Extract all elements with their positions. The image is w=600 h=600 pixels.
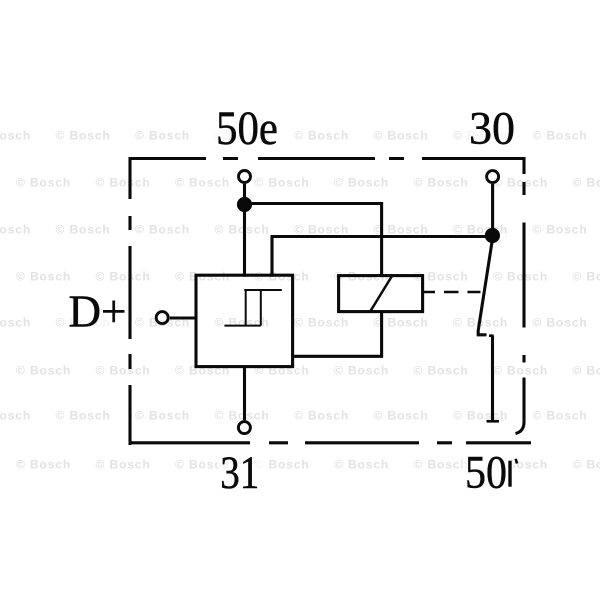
svg-text:© Bosch: © Bosch	[533, 129, 588, 143]
svg-text:© Bosch: © Bosch	[16, 176, 71, 190]
svg-text:© Bosch: © Bosch	[533, 409, 588, 423]
svg-text:© Bosch: © Bosch	[453, 409, 508, 423]
hysteresis symbol inside U1	[224, 290, 281, 326]
svg-text:© Bosch: © Bosch	[96, 458, 151, 472]
svg-text:© Bosch: © Bosch	[135, 129, 190, 143]
svg-text:© Bosch: © Bosch	[533, 223, 588, 237]
svg-text:© Bosch: © Bosch	[215, 223, 270, 237]
svg-text:© Bosch: © Bosch	[294, 223, 349, 237]
relay housing: top dashed border	[130, 157, 526, 160]
svg-text:© Bosch: © Bosch	[16, 270, 71, 284]
control unit U1 (Schmitt trigger box)	[196, 275, 293, 366]
svg-text:© Bosch: © Bosch	[96, 270, 151, 284]
svg-text:© Bosch: © Bosch	[334, 176, 389, 190]
svg-text:© Bosch: © Bosch	[414, 176, 469, 190]
mechanical link (dashed) coil to contact	[423, 291, 481, 294]
svg-text:© Bosch: © Bosch	[493, 270, 548, 284]
svg-text:© Bosch: © Bosch	[135, 223, 190, 237]
svg-text:© Bosch: © Bosch	[0, 316, 31, 330]
relay housing: right dashed border	[516, 157, 525, 434]
svg-text:© Bosch: © Bosch	[493, 176, 548, 190]
svg-text:© Bosch: © Bosch	[96, 176, 151, 190]
terminal 31 pin circle	[238, 422, 250, 434]
svg-text:© Bosch: © Bosch	[56, 409, 111, 423]
svg-text:© Bosch: © Bosch	[414, 458, 469, 472]
wire: horizontal run to 30 node	[271, 235, 493, 238]
svg-text:© Bosch: © Bosch	[493, 364, 548, 378]
terminal 50f label	[465, 448, 517, 499]
svg-text:© Bosch: © Bosch	[0, 223, 31, 237]
svg-text:© Bosch: © Bosch	[255, 176, 310, 190]
svg-text:© Bosch: © Bosch	[215, 409, 270, 423]
svg-text:© Bosch: © Bosch	[294, 409, 349, 423]
svg-text:50: 50	[465, 448, 507, 499]
wire: coil bottom down	[380, 312, 383, 357]
relay coil K1 box	[339, 276, 423, 312]
wire: down to coil top	[380, 202, 383, 277]
svg-text:© Bosch: © Bosch	[374, 409, 429, 423]
svg-text:© Bosch: © Bosch	[294, 316, 349, 330]
svg-text:© Bosch: © Bosch	[175, 176, 230, 190]
svg-text:© Bosch: © Bosch	[374, 129, 429, 143]
svg-text:30: 30	[469, 103, 515, 154]
svg-text:© Bosch: © Bosch	[334, 364, 389, 378]
wire: 30 pin down to switch node	[491, 184, 494, 236]
wire: trigger box bottom to 31 pin	[243, 367, 246, 421]
wire: 50e pin to junction dot	[243, 184, 246, 199]
svg-text:© Bosch: © Bosch	[573, 270, 600, 284]
svg-text:© Bosch: © Bosch	[533, 316, 588, 330]
switch contact blade	[478, 242, 492, 335]
svg-text:D+: D+	[69, 286, 127, 337]
svg-text:© Bosch: © Bosch	[573, 458, 600, 472]
junction dot at 30/switch node	[485, 228, 500, 243]
wire: coil bottom run to trigger box output	[293, 355, 384, 358]
svg-text:50e: 50e	[216, 102, 278, 155]
terminal D+ pin circle	[156, 312, 168, 324]
svg-text:© Bosch: © Bosch	[294, 129, 349, 143]
wire: 50e node down to trigger box top	[243, 205, 246, 277]
svg-text:© Bosch: © Bosch	[334, 458, 389, 472]
wire: 50e node right toward coil (horizontal)	[245, 202, 383, 205]
svg-text:© Bosch: © Bosch	[56, 129, 111, 143]
svg-text:© Bosch: © Bosch	[573, 364, 600, 378]
wire: D+ pin to trigger box	[170, 316, 197, 319]
junction dot at 50e node	[237, 197, 252, 212]
svg-text:© Bosch: © Bosch	[96, 364, 151, 378]
svg-text:31: 31	[220, 448, 259, 499]
svg-text:© Bosch: © Bosch	[414, 364, 469, 378]
svg-text:© Bosch: © Bosch	[573, 176, 600, 190]
svg-text:© Bosch: © Bosch	[16, 458, 71, 472]
wire: trigger box top to 30 node (vertical riser)	[270, 237, 273, 277]
svg-text:© Bosch: © Bosch	[0, 129, 31, 143]
relay housing: left dashed border	[128, 157, 131, 445]
svg-text:© Bosch: © Bosch	[0, 409, 31, 423]
coil diagonal stroke	[371, 276, 393, 311]
terminal 50e pin circle	[239, 171, 251, 183]
svg-text:© Bosch: © Bosch	[16, 364, 71, 378]
terminal 30 pin circle	[487, 171, 499, 183]
switch fixed contact	[487, 336, 500, 422]
svg-text:© Bosch: © Bosch	[135, 409, 190, 423]
relay housing: bottom dashed border	[129, 441, 532, 444]
svg-text:© Bosch: © Bosch	[56, 223, 111, 237]
